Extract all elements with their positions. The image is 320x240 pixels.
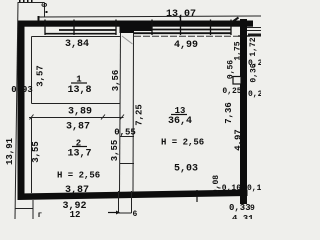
svg-text:7,36: 7,36	[224, 102, 234, 124]
svg-text:13,07: 13,07	[166, 9, 196, 20]
svg-text:0,2: 0,2	[248, 90, 261, 99]
svg-text:0,55: 0,55	[114, 128, 136, 138]
svg-text:0,25: 0,25	[222, 87, 241, 96]
svg-text:1,75: 1,75	[234, 41, 243, 60]
svg-text:3,55: 3,55	[110, 140, 120, 162]
svg-text:3,89: 3,89	[68, 107, 92, 118]
svg-text:3,84: 3,84	[65, 39, 89, 50]
svg-text:13,8: 13,8	[67, 85, 91, 96]
svg-text:0,56: 0,56	[227, 60, 236, 79]
svg-text:0,08: 0,08	[212, 175, 221, 194]
svg-text:4,99: 4,99	[174, 40, 198, 51]
svg-text:3,87: 3,87	[66, 122, 90, 133]
svg-text:9: 9	[250, 204, 255, 213]
svg-text:Н = 2,56: Н = 2,56	[161, 138, 204, 148]
svg-text:36,4: 36,4	[168, 116, 192, 127]
svg-text:6: 6	[41, 2, 50, 7]
svg-text:6: 6	[133, 210, 138, 219]
svg-text:13,91: 13,91	[5, 137, 15, 165]
svg-text:0,93: 0,93	[11, 85, 33, 95]
svg-text:7,25: 7,25	[135, 104, 145, 126]
svg-text:4,31: 4,31	[232, 214, 254, 219]
svg-text:3,57: 3,57	[36, 65, 46, 87]
svg-text:3,87: 3,87	[65, 185, 89, 196]
svg-text:12: 12	[70, 210, 81, 219]
svg-text:г: г	[38, 211, 43, 219]
svg-text:4,97: 4,97	[234, 129, 244, 151]
svg-text:0,36: 0,36	[250, 63, 259, 82]
svg-text:5,03: 5,03	[174, 164, 198, 175]
svg-text:13,7: 13,7	[67, 149, 91, 160]
svg-text:0,1: 0,1	[247, 184, 261, 193]
svg-text:3,55: 3,55	[31, 141, 41, 163]
svg-text:0,33: 0,33	[229, 203, 251, 213]
svg-text:3,56: 3,56	[111, 70, 121, 92]
svg-text:Н = 2,56: Н = 2,56	[57, 171, 100, 181]
svg-text:1,72: 1,72	[249, 37, 258, 56]
